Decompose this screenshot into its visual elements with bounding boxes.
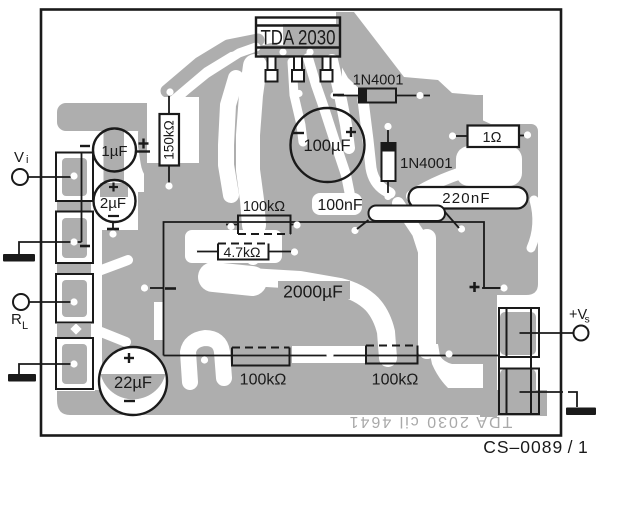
svg-text:1N4001: 1N4001 [353, 73, 404, 89]
svg-text:1N4001: 1N4001 [400, 155, 453, 172]
svg-text:TDA 2030: TDA 2030 [261, 26, 336, 50]
svg-text:R: R [11, 311, 22, 328]
svg-text:150kΩ: 150kΩ [162, 120, 177, 159]
svg-text:4.7kΩ: 4.7kΩ [224, 244, 261, 260]
svg-text:100nF: 100nF [317, 197, 363, 214]
svg-text:s: s [585, 314, 590, 326]
svg-text:100kΩ: 100kΩ [243, 199, 285, 215]
svg-text:V: V [14, 149, 24, 166]
svg-text:220nF: 220nF [442, 190, 491, 207]
svg-text:i: i [26, 154, 28, 166]
svg-text:1µF: 1µF [101, 143, 127, 160]
svg-text:2000µF: 2000µF [283, 282, 343, 302]
svg-text:CS–0089 / 1: CS–0089 / 1 [483, 437, 589, 457]
svg-text:2µF: 2µF [100, 195, 126, 212]
svg-text:22µF: 22µF [114, 374, 152, 392]
svg-text:100µF: 100µF [303, 137, 350, 155]
svg-text:L: L [22, 320, 28, 332]
svg-text:100kΩ: 100kΩ [372, 372, 419, 389]
svg-text:100kΩ: 100kΩ [240, 372, 287, 389]
svg-text:TDA 2030 cil 4641: TDA 2030 cil 4641 [348, 413, 513, 430]
svg-text:1Ω: 1Ω [483, 130, 502, 146]
